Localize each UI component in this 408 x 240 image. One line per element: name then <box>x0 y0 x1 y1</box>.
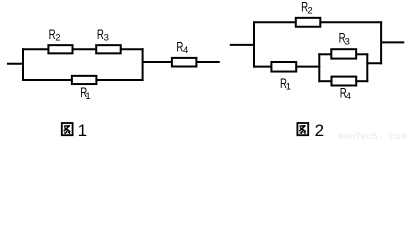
wire: fig2 R4 branch left lead <box>318 80 331 82</box>
resistor R4 (fig2) <box>332 77 357 86</box>
svg-text:2: 2 <box>315 121 324 140</box>
wire: fig1 right vertical junction bar <box>142 48 144 81</box>
wire: fig2 parallel-block left vertical bar <box>318 53 320 82</box>
svg-text:3: 3 <box>345 36 350 47</box>
wire: fig2 right vertical junction bar <box>380 21 382 64</box>
label R1 (fig2) <box>280 75 291 93</box>
wire: fig2 top rail right segment <box>320 21 382 23</box>
wire: fig2 left vertical junction bar <box>253 21 255 67</box>
wire: fig1 bottom rail right segment <box>96 79 143 81</box>
wire: fig2 R3 branch right lead <box>356 53 368 55</box>
label R4 (fig1) <box>176 38 188 56</box>
wire: fig1 top rail right segment <box>121 48 144 50</box>
wire: fig2 bottom rail left segment <box>253 66 271 68</box>
resistor R1 (fig1) <box>72 76 97 84</box>
wire: fig1 output lead to R4 <box>143 61 172 63</box>
caption glyph 图 (fig2), hand-drawn <box>297 123 308 135</box>
wire: fig1 top rail middle segment <box>73 48 97 50</box>
wire: fig1 left vertical junction bar <box>22 48 24 81</box>
svg-text:2: 2 <box>307 5 312 16</box>
wire: fig1 output lead after R4 <box>196 61 219 63</box>
wire: fig2 R3 branch left lead <box>318 53 331 55</box>
resistor R3 (fig1) <box>96 45 121 53</box>
wire: fig2 parallel-block right vertical bar <box>366 53 368 82</box>
wire: fig2 R4 branch right lead <box>356 80 368 82</box>
resistor R2 (fig1) <box>48 45 72 53</box>
wire: fig2 output lead <box>381 41 404 43</box>
wire: fig1 top rail left segment <box>22 48 48 50</box>
label R2 (fig2) <box>301 0 313 16</box>
label R3 (fig2) <box>339 29 350 47</box>
wire: fig1 bottom rail left segment <box>22 79 72 81</box>
resistor R4 (fig1) <box>172 58 197 67</box>
label R4 (fig2) <box>340 84 351 102</box>
label R3 (fig1) <box>97 26 109 44</box>
resistor R2 (fig2) <box>296 18 321 27</box>
svg-text:3: 3 <box>104 33 109 44</box>
svg-text:1: 1 <box>78 121 87 140</box>
resistor R1 (fig2) <box>271 62 296 72</box>
resistor R3 (fig2) <box>331 49 356 58</box>
label R2 (fig1) <box>49 26 61 44</box>
wire: fig2 input lead <box>230 44 255 46</box>
wire: fig2 top rail left segment <box>253 21 296 23</box>
svg-text:1: 1 <box>286 81 291 92</box>
svg-text:manfen5. com: manfen5. com <box>338 131 407 141</box>
svg-text:4: 4 <box>183 45 188 56</box>
svg-text:2: 2 <box>55 33 60 44</box>
svg-text:1: 1 <box>85 91 90 102</box>
label R1 (fig1) <box>80 84 90 102</box>
wire: fig2 bottom rail right segment <box>296 66 320 68</box>
wire: fig1 input lead <box>7 63 24 65</box>
svg-text:4: 4 <box>346 91 351 102</box>
wire: fig2 stub from parallel block to right vertical <box>366 62 382 64</box>
caption glyph 图 (fig1), hand-drawn <box>62 123 73 135</box>
